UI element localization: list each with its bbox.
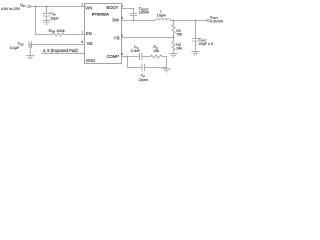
resistor R2 lower lead <box>173 50 175 53</box>
svg-text:10µF: 10µF <box>50 16 59 20</box>
node VOUT output terminal <box>207 19 209 21</box>
resistor R2 24k zigzag <box>172 42 175 51</box>
capacitor CC (wire from COMP node and plates) <box>128 53 143 60</box>
capacitor COUT lower lead <box>195 41 197 52</box>
capacitor CSS plates <box>29 42 32 48</box>
svg-text:EN: EN <box>86 31 92 36</box>
svg-text:VIN: VIN <box>85 6 92 11</box>
resistor R1 lower lead to FB node <box>173 33 175 37</box>
svg-text:4.5V to 23V: 4.5V to 23V <box>1 7 21 11</box>
node junction FB divider <box>173 37 175 39</box>
svg-text:0.1µF: 0.1µF <box>10 46 20 50</box>
wire Cp branch vertical <box>127 57 129 68</box>
capacitor Cp plates <box>142 64 145 70</box>
ground for compensation network <box>163 69 171 72</box>
resistor R1 75k upper lead <box>173 21 175 25</box>
wire CC to RC <box>142 56 151 58</box>
ground for CSS <box>27 56 35 59</box>
wire EN line left part <box>36 34 53 36</box>
svg-text:4, 9 (Exposed Pad): 4, 9 (Exposed Pad) <box>43 48 79 53</box>
capacitor CBOOT plates <box>130 14 137 16</box>
IC U1 RT8292A body <box>85 4 122 64</box>
ground for COUT <box>192 52 200 55</box>
svg-text:Open: Open <box>139 78 148 82</box>
wire SS pin to CSS <box>32 44 85 46</box>
resistor R2 24k upper lead <box>173 38 175 42</box>
capacitor COUT upper lead <box>195 21 197 39</box>
svg-text:BOOT: BOOT <box>106 5 118 10</box>
capacitor CIN lead from VIN rail <box>46 7 48 14</box>
node junction COMP branch <box>127 56 129 58</box>
capacitor CBOOT upper lead <box>133 9 135 14</box>
resistor REN 100k zigzag <box>53 33 65 36</box>
svg-text:24k: 24k <box>176 47 182 51</box>
svg-text:GND: GND <box>86 58 95 63</box>
node junction CBOOT/SW <box>133 20 135 22</box>
node junction A on VIN rail <box>35 6 37 8</box>
svg-text:3.3nF: 3.3nF <box>131 49 141 53</box>
node junction B top of CIN <box>46 6 48 8</box>
svg-text:10µH: 10µH <box>157 13 166 17</box>
svg-text:REN 100k: REN 100k <box>49 28 65 34</box>
svg-text:SW: SW <box>112 17 119 22</box>
capacitor CIN lower lead <box>46 16 48 21</box>
capacitor CIN plates <box>43 14 50 17</box>
ground for CIN <box>43 21 51 24</box>
svg-text:3.3V/2A: 3.3V/2A <box>210 20 224 24</box>
wire vertical from VIN rail down to EN line <box>35 7 37 35</box>
wire CSS left plate to ground drop <box>29 45 30 56</box>
wire BOOT pin to CBOOT <box>122 8 134 10</box>
wire inductor to VOUT terminal <box>170 20 207 22</box>
wire EN line right part to chip EN pin <box>64 34 84 36</box>
resistor R1 75k zigzag <box>172 25 175 34</box>
svg-text:FB: FB <box>114 35 120 40</box>
wire FB pin to divider midpoint <box>122 37 174 39</box>
leader line for exposed pad note to GND pin <box>42 52 85 54</box>
ground for R2 <box>170 54 178 57</box>
wire VIN terminal to chip VIN pin <box>30 6 84 8</box>
svg-text:13k: 13k <box>153 49 159 53</box>
capacitor CBOOT lower lead to SW line <box>133 16 135 21</box>
wire SW pin to inductor <box>122 20 156 22</box>
svg-text:100nF: 100nF <box>139 11 150 15</box>
wire RC to ground drop <box>162 57 167 68</box>
wire Cp right plate to ground node <box>145 67 167 69</box>
svg-text:SS: SS <box>87 41 93 46</box>
node junction top of R1 <box>173 20 175 22</box>
node junction top of COUT <box>195 20 197 22</box>
svg-text:22µF x 2: 22µF x 2 <box>199 42 213 46</box>
svg-text:RT8292A: RT8292A <box>92 11 109 16</box>
wire Cp branch to left plate <box>128 67 143 69</box>
inductor L 10uH humps <box>156 19 171 21</box>
svg-text:75k: 75k <box>176 33 182 37</box>
node VIN input terminal <box>28 5 30 7</box>
resistor RC 13k zigzag <box>151 55 162 58</box>
capacitor COUT plates <box>192 39 199 42</box>
svg-text:COMP: COMP <box>106 54 119 59</box>
wire COMP pin to compensation network <box>122 56 128 58</box>
